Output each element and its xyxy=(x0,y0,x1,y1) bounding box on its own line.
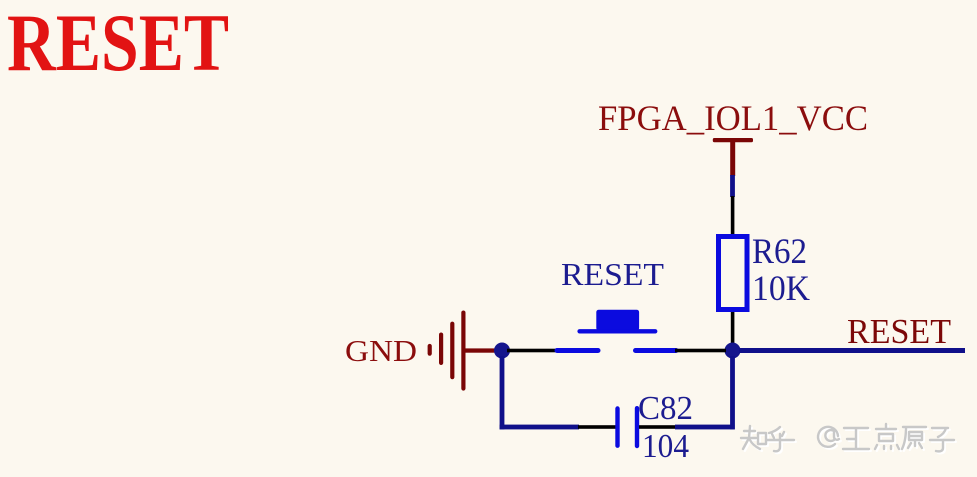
svg-text:RESET: RESET xyxy=(561,256,664,292)
ground symbol bar 3 xyxy=(450,324,454,377)
svg-text:GND: GND xyxy=(345,333,417,368)
pin capacitor left (black) xyxy=(578,425,616,429)
junction node left xyxy=(494,343,510,359)
pin switch right inner (blue) xyxy=(636,348,677,353)
power stem xyxy=(730,140,735,176)
ground symbol bar 4 xyxy=(461,313,465,389)
pin resistor bottom (black) xyxy=(731,312,735,351)
wire (navy) power to resistor pin xyxy=(730,175,735,197)
pin switch left outer (black) xyxy=(507,349,556,353)
resistor R62 xyxy=(719,237,748,310)
wire RESET output (navy) xyxy=(739,348,965,353)
svg-text:C82: C82 xyxy=(638,390,693,427)
junction node right xyxy=(725,343,741,359)
wire left vertical (navy) xyxy=(500,356,505,429)
watermark 知乎 @正点原子 xyxy=(741,424,956,453)
pin switch right outer (black) xyxy=(675,349,726,353)
svg-text:104: 104 xyxy=(642,428,689,465)
svg-text:FPGA_IOL1_VCC: FPGA_IOL1_VCC xyxy=(598,98,868,138)
wire ground to node (dark red) xyxy=(465,348,497,352)
capacitor C82 plate left xyxy=(615,409,619,446)
pin resistor top (black) xyxy=(731,196,735,235)
ground symbol bar 1 xyxy=(428,346,432,354)
wire bottom left (navy) xyxy=(500,425,579,430)
pin switch left inner (blue) xyxy=(557,348,598,353)
svg-text:RESET: RESET xyxy=(847,312,951,351)
wire bottom right (navy) xyxy=(675,425,735,430)
svg-text:R62: R62 xyxy=(752,231,807,271)
pin capacitor right (black) xyxy=(639,425,675,429)
svg-text:10K: 10K xyxy=(752,268,810,308)
power bar FPGA_IOL1_VCC xyxy=(713,138,753,142)
ground symbol bar 2 xyxy=(439,335,443,363)
capacitor C82 plate right xyxy=(635,408,639,446)
svg-text:RESET: RESET xyxy=(7,0,229,88)
switch button bar xyxy=(580,329,656,333)
wire right vertical (navy) xyxy=(730,356,735,429)
switch button cap xyxy=(596,310,639,331)
